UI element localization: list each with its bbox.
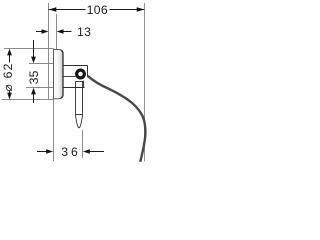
svg-text:106: 106 (87, 3, 108, 17)
svg-text:13: 13 (77, 25, 91, 39)
dimension 36 left tail (37, 151, 47, 153)
dimension 35 stem top (33, 40, 35, 58)
svg-text:36: 36 (61, 145, 80, 159)
dimension 36 right arrow (pointing left) (83, 149, 90, 154)
dimension 106 right arrow (137, 7, 145, 12)
holder pin right side (82, 82, 84, 116)
holder lip line (64, 87, 85, 89)
extension line x=53.5 below plate for 36 dim (53, 100, 55, 162)
dimension 106 left arrow (49, 7, 57, 12)
extension line left (wall face) x=48.5 (48, 3, 50, 99)
dimension 13 tails (36, 31, 43, 33)
holder pin cross line (76, 114, 83, 116)
plate right edge thick (61, 50, 63, 97)
dimension dia62 bottom arrow (7, 93, 12, 100)
dimension 35 top arrow (pointing down) (31, 57, 36, 64)
dimension 13 right arrow (57, 29, 64, 34)
bracket top edge (64, 65, 88, 67)
dimension 36 right tail (89, 151, 104, 153)
dimension 35 stem bottom (33, 94, 35, 103)
bracket right edge (87, 66, 89, 78)
dimension 35 bottom arrow (pointing up) (31, 88, 36, 95)
holder pin tip (76, 115, 83, 128)
hose (88, 76, 146, 162)
dimension 106 line (49, 9, 86, 11)
extension line right x=144.5 (144, 3, 146, 162)
dimension dia62 stem top (9, 55, 11, 63)
extension line y=87.5 for 35 dim bottom (26, 87, 54, 89)
holder pin left side (75, 82, 77, 116)
holder cup right edge (83, 81, 85, 88)
escutcheon plate body (54, 49, 64, 98)
bracket middle line (64, 76, 76, 78)
extension line top of plate y=48.5 (4, 48, 54, 50)
svg-text:⌀ 62: ⌀ 62 (1, 62, 15, 91)
svg-text:35: 35 (27, 70, 41, 84)
holder cup top line (76, 81, 84, 83)
extension line x=56.5 for 13 dim (56, 14, 58, 49)
dimension 13 left arrow (42, 29, 49, 34)
dimension dia62 top arrow (7, 49, 12, 56)
extension line x=82.5 pin axis for 36 dim (82, 130, 84, 158)
extension line y=99.5 bottom of plate (2, 99, 54, 101)
extension line y=63.5 for 35 dim top (29, 63, 54, 65)
dimension 36 left arrow (pointing right) (46, 149, 53, 154)
hose swivel ring (77, 70, 85, 78)
dimension dia62 stem bottom (9, 91, 11, 94)
